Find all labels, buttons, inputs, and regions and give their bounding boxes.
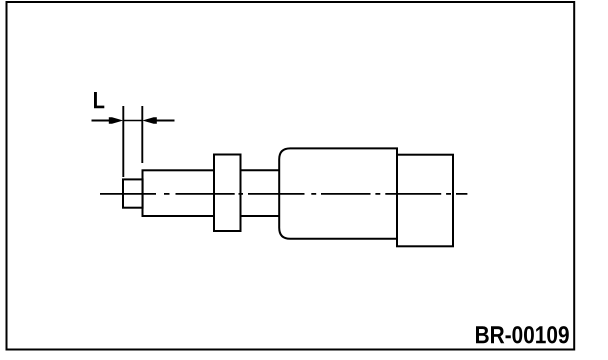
extension line right bbox=[141, 106, 143, 163]
rear block bbox=[397, 155, 453, 247]
dimension arrow line right bbox=[156, 120, 175, 122]
center line (dash-dot axis) bbox=[100, 193, 467, 195]
extension line left bbox=[122, 106, 124, 177]
figure code BR-00109 bbox=[476, 326, 569, 343]
dimension line between extension lines bbox=[123, 120, 142, 122]
flange collar bbox=[214, 155, 241, 232]
shaft between flange and body bbox=[241, 170, 281, 216]
dimension arrow line left bbox=[92, 120, 111, 122]
arrowhead left (points right) bbox=[109, 117, 124, 124]
rod section bbox=[143, 170, 215, 216]
pushrod tip (small end rectangle) bbox=[123, 179, 143, 207]
dimension label L bbox=[94, 92, 104, 108]
arrowhead right (points left) bbox=[142, 117, 157, 124]
main body (rounded left corners) bbox=[279, 148, 397, 238]
